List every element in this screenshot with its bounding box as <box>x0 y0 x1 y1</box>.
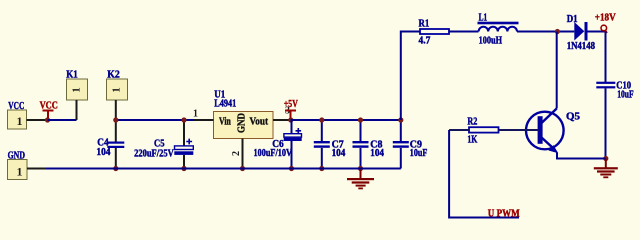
svg-text:10uF: 10uF <box>617 89 634 100</box>
svg-text:Q5: Q5 <box>566 111 580 122</box>
capacitor C8 <box>353 120 385 169</box>
svg-text:104: 104 <box>332 148 346 159</box>
svg-text:R2: R2 <box>467 116 477 127</box>
connector K1 <box>66 70 87 100</box>
junction C7 top <box>319 117 324 122</box>
junction U1 pin2 bottom <box>240 166 245 171</box>
wire bottom rail <box>46 168 401 170</box>
svg-text:100uH: 100uH <box>479 35 503 46</box>
svg-text:1: 1 <box>112 87 123 92</box>
junction emitter/ground node <box>603 156 608 161</box>
svg-text:1: 1 <box>17 165 23 179</box>
wire R2 to Q5 base <box>499 129 539 131</box>
svg-text:2: 2 <box>231 151 242 156</box>
junction +5V node <box>288 117 293 122</box>
power +18V <box>595 12 617 33</box>
wire K2 to U1 pin1 <box>116 119 194 121</box>
pin K2-1 <box>115 100 117 120</box>
junction C8 bottom <box>358 166 363 171</box>
junction C7 bottom <box>319 166 324 171</box>
svg-text:104: 104 <box>96 147 110 158</box>
wire U_PWM <box>449 130 519 218</box>
pin VCC-1 <box>27 119 48 121</box>
pin U1-3 <box>273 119 291 121</box>
ground middle <box>347 169 374 190</box>
svg-text:1: 1 <box>72 87 83 92</box>
svg-text:1K: 1K <box>467 135 477 146</box>
pin U1-2 <box>242 139 244 169</box>
capacitor C5 <box>134 120 193 169</box>
resistor R2 <box>467 116 498 145</box>
wire R2 left to corner <box>449 129 469 131</box>
capacitor C4 <box>96 120 124 169</box>
svg-text:104: 104 <box>370 148 384 159</box>
svg-text:GND: GND <box>237 113 248 133</box>
wire +18V down to C10 <box>605 32 607 83</box>
svg-text:Vin: Vin <box>219 117 231 128</box>
wire Q5 collector up <box>556 32 558 109</box>
junction VCC node <box>45 117 50 122</box>
junction C9 top / riser <box>398 117 403 122</box>
wire C10 down to ground <box>605 88 607 158</box>
wire riser to R1 row <box>401 32 420 121</box>
junction K2 node <box>113 117 118 122</box>
transistor Q5 <box>526 109 580 154</box>
svg-text:+18V: +18V <box>595 12 617 23</box>
junction C6 bottom <box>289 166 294 171</box>
wire VCC to K1 <box>48 119 77 121</box>
capacitor C6 <box>254 120 302 169</box>
svg-text:10uF: 10uF <box>410 148 428 159</box>
junction C8 top <box>358 117 363 122</box>
connector VCC <box>8 101 27 129</box>
svg-text:4.7: 4.7 <box>419 36 431 47</box>
wire top rail right <box>291 119 402 121</box>
svg-text:L4941: L4941 <box>214 99 236 110</box>
power VCC symbol <box>40 101 58 120</box>
junction D1/Q5 node <box>555 29 560 34</box>
wire L1 to D1 <box>517 31 574 33</box>
diode D1 <box>567 14 606 52</box>
wire R1 to L1 <box>449 31 479 33</box>
inductor L1 <box>478 13 519 47</box>
junction C5 top <box>181 117 186 122</box>
ground right <box>594 159 618 179</box>
svg-text:R1: R1 <box>419 18 430 29</box>
pin K1-1 <box>76 100 78 120</box>
svg-text:D1: D1 <box>567 14 578 25</box>
connector K2 <box>107 70 128 100</box>
svg-text:1: 1 <box>17 114 23 128</box>
svg-text:220uF/25V: 220uF/25V <box>134 149 174 160</box>
junction C4 bottom <box>113 166 118 171</box>
pin U1-1 <box>194 119 214 121</box>
svg-text:1N4148: 1N4148 <box>567 41 595 52</box>
svg-text:Vout: Vout <box>250 117 269 128</box>
capacitor C10 <box>596 81 633 101</box>
svg-text:1: 1 <box>193 109 198 120</box>
pin GND-1 <box>27 168 46 170</box>
wire Q5 emitter down and right <box>557 153 606 159</box>
svg-text:100uF/10V: 100uF/10V <box>254 148 293 159</box>
regulator U1 <box>214 90 274 139</box>
connector GND <box>8 151 28 180</box>
capacitor C9 <box>393 120 428 169</box>
svg-text:U PWM: U PWM <box>488 209 520 220</box>
svg-text:+5V: +5V <box>284 99 299 110</box>
junction C5 bottom <box>181 166 186 171</box>
capacitor C7 <box>314 120 346 169</box>
resistor R1 <box>419 18 450 46</box>
power +5V <box>284 99 299 120</box>
